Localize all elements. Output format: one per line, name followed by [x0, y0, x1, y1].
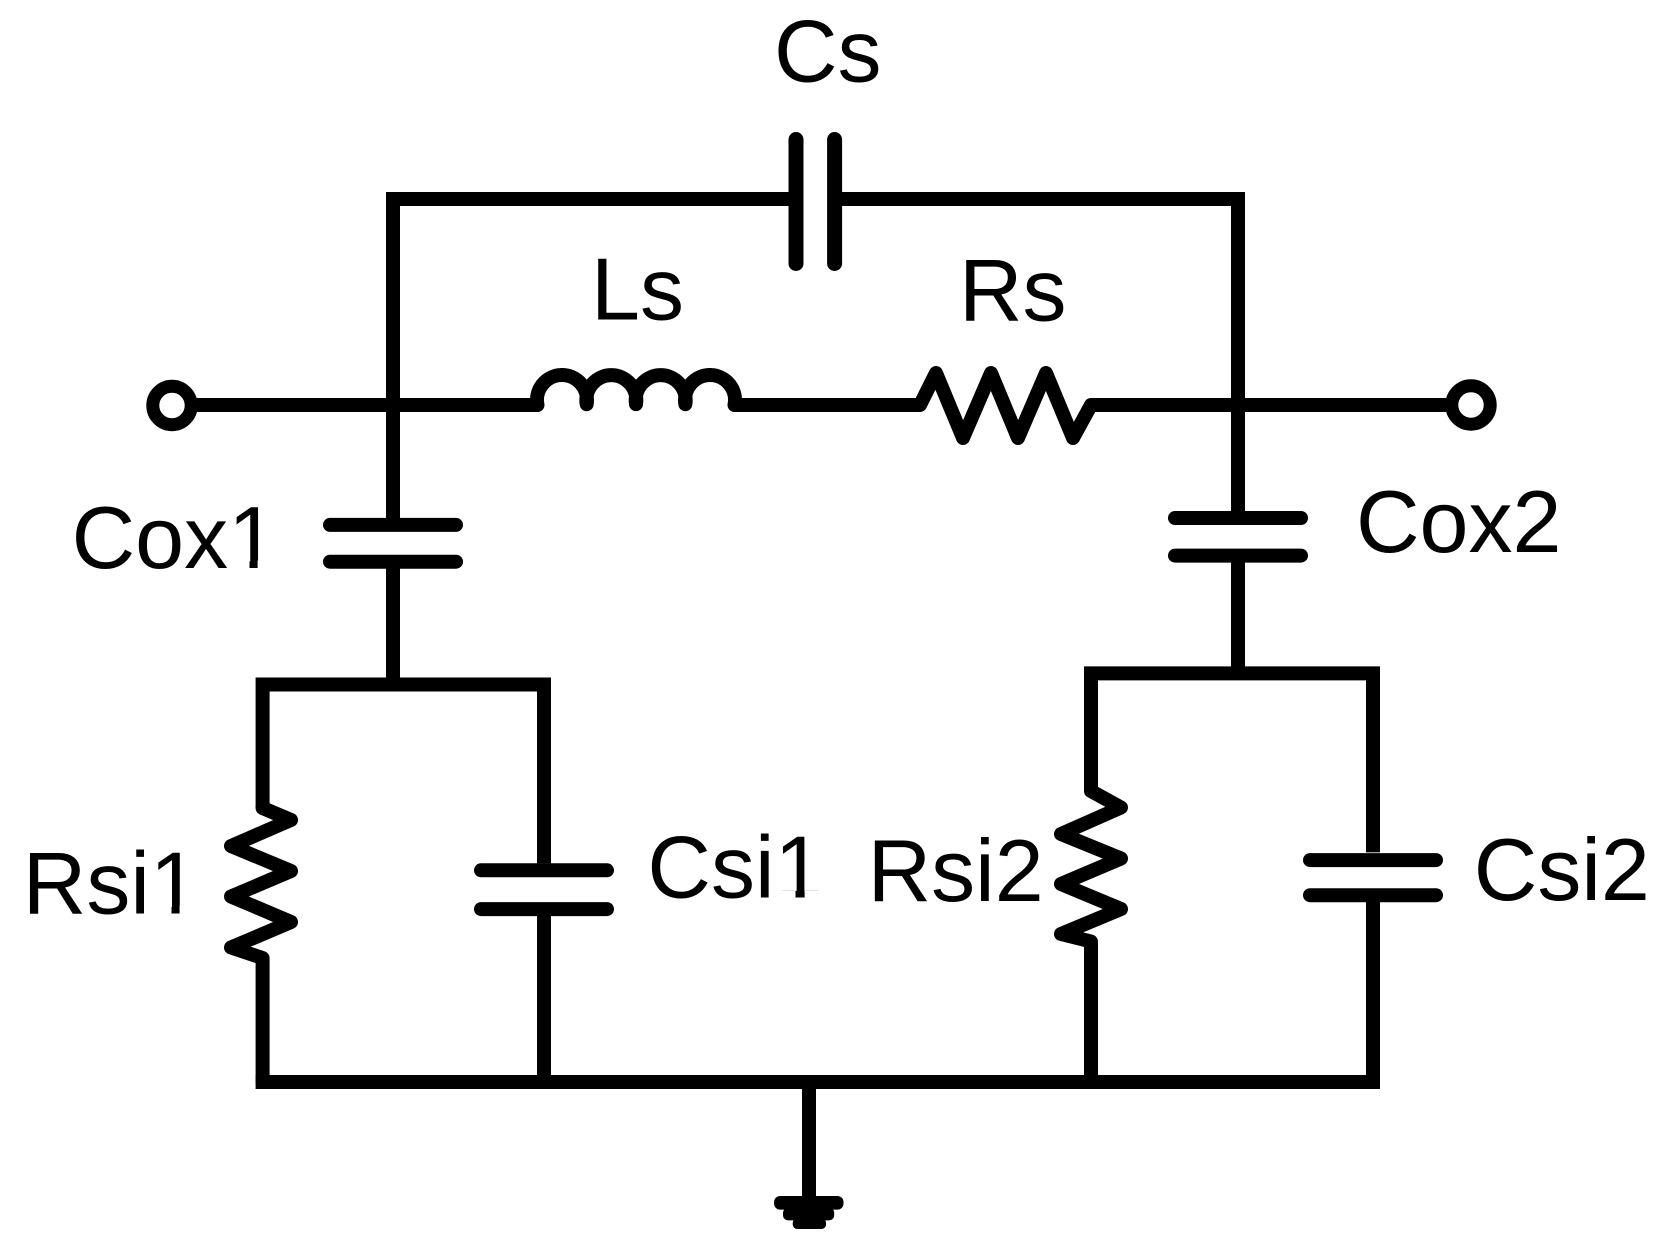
svg-text:Ls: Ls	[591, 240, 684, 339]
wire: left vertical + top rail to Cs left plate	[393, 199, 789, 525]
capacitor Cox1	[330, 525, 456, 562]
wire: main horizontal middle segment	[734, 398, 921, 412]
svg-text:Csi2: Csi2	[1474, 820, 1650, 919]
resistor Rs	[920, 373, 1091, 438]
svg-text:Rs: Rs	[959, 240, 1067, 339]
wire: main horizontal right segment	[1090, 398, 1446, 412]
wire: Csi2 bottom to bottom rail	[1366, 895, 1380, 1082]
wire: Csi1 bottom to bottom rail	[537, 909, 551, 1082]
wire: Cox1 bottom to left box top rail	[386, 561, 400, 685]
svg-text:Rsi2: Rsi2	[868, 821, 1044, 920]
ground	[774, 1196, 843, 1229]
svg-text:Cs: Cs	[774, 1, 882, 100]
svg-text:Cox1: Cox1	[72, 488, 277, 587]
terminal: left port	[153, 386, 191, 424]
svg-text:Rsi1: Rsi1	[23, 833, 199, 932]
wire: ground stem	[802, 1082, 816, 1196]
resistor Rsi2	[1061, 791, 1121, 1082]
inductor Ls	[537, 375, 735, 405]
wire: right box top rail and sides	[1091, 673, 1373, 852]
wire: bottom rail	[256, 1075, 1380, 1089]
white covers to emulate Arial-style footless digit 1	[154, 561, 822, 915]
capacitor Csi1	[481, 870, 607, 909]
svg-text:Cox2: Cox2	[1356, 472, 1561, 571]
terminal: right port	[1452, 386, 1490, 424]
wire: left box top rail and sides	[263, 685, 544, 864]
wire: top rail from Cs right plate + right vertical down to Cox2	[842, 199, 1238, 518]
capacitor Csi2	[1310, 860, 1436, 895]
svg-text:Csi1: Csi1	[647, 818, 823, 917]
resistor Rsi1	[231, 808, 291, 1082]
capacitor Cox2	[1175, 518, 1301, 556]
wire: Cox2 bottom to right box top rail	[1231, 555, 1245, 673]
wire: main horizontal left segment	[196, 398, 538, 412]
capacitor Cs	[796, 140, 835, 264]
